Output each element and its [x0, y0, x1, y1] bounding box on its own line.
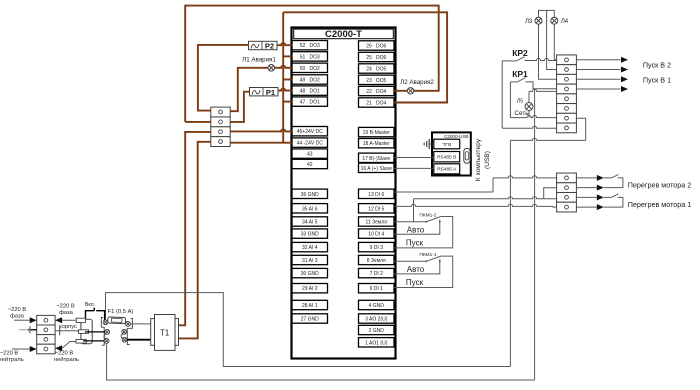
lamp L4 [551, 17, 558, 24]
wire TB1 row3 to pin 45 (+24V) [230, 129, 292, 131]
label C2000-T title band [294, 29, 394, 40]
svg-text:10 DI 4: 10 DI 4 [368, 232, 384, 238]
svg-text:фаза: фаза [10, 314, 25, 320]
pin 3 AO 2(U) [359, 314, 395, 323]
svg-text:52 DO3: 52 DO3 [300, 43, 320, 49]
lamp L3 [535, 17, 542, 24]
svg-text:Р1: Р1 [266, 88, 275, 97]
connector left outline [101, 318, 104, 346]
pin 35 AI 6 [292, 204, 328, 213]
svg-text:49 DO2: 49 DO2 [300, 78, 320, 84]
pin 21 DO4 [359, 98, 395, 107]
label ~220V faza left [8, 307, 27, 320]
svg-text:Перегрев мотора 2: Перегрев мотора 2 [628, 180, 692, 189]
wire lamp top bus [539, 10, 555, 17]
transformer T1 [151, 315, 179, 351]
selector switch PKM1-2 [394, 212, 453, 248]
lamp L5 [525, 103, 533, 111]
wire top rail to pin 21 [283, 12, 447, 102]
wire DO-return rail [282, 12, 284, 142]
wire TB4 row4 to switch bottom (diagonal) [55, 342, 81, 352]
label ~220V neutral left [0, 351, 24, 364]
terminal F1 right top [126, 322, 131, 327]
thermal contact motor 2 [576, 174, 691, 190]
pin 24 DO5 [359, 64, 395, 73]
svg-text:21 DO4: 21 DO4 [366, 101, 386, 107]
svg-text:50 DO2: 50 DO2 [300, 66, 320, 72]
controller U1 C2000-T body [292, 28, 396, 359]
svg-text:Пуск: Пуск [406, 238, 424, 247]
wire bot-right terminal to T1 (thick) [127, 339, 151, 341]
label L5 [517, 99, 523, 105]
svg-text:25 DO6: 25 DO6 [366, 55, 386, 61]
wire neutral riser [534, 89, 536, 380]
svg-text:7 DI 2: 7 DI 2 [370, 271, 384, 277]
svg-text:2 GND: 2 GND [369, 328, 385, 334]
pin 50 DO2 [292, 63, 328, 72]
wire neutral in [12, 346, 37, 352]
label KP2 [512, 48, 528, 58]
relay coil P1 [250, 88, 279, 97]
label KP1 [512, 69, 528, 79]
svg-text:47 DO1: 47 DO1 [300, 100, 320, 106]
svg-text:T1: T1 [160, 328, 169, 337]
label ~220V neutral right [54, 351, 79, 364]
svg-text:6 DI 1: 6 DI 1 [370, 286, 384, 292]
wire pin17 to RS485 B [394, 157, 434, 159]
wire lamp L3 down to TB2 row3 [539, 24, 557, 79]
pin 42 [292, 159, 328, 168]
svg-text:Авто: Авто [407, 265, 425, 274]
svg-text:24 DO5: 24 DO5 [366, 67, 386, 73]
lamp L1 [268, 65, 275, 72]
label korpus [59, 324, 77, 330]
terminal block TB4 (power input, 4 cells) [37, 315, 55, 353]
pin 22 DO4 [359, 86, 395, 95]
pin 26 DO6 [359, 41, 395, 50]
svg-text:28 AI 1: 28 AI 1 [302, 303, 318, 309]
wire TB1 row4 to pin 44 (-24V) [230, 142, 292, 144]
svg-text:Р2: Р2 [265, 42, 274, 51]
wire P1 left to TB1 row2 right [230, 92, 249, 122]
wire pin16 to RS485 A [394, 167, 434, 169]
pin 44 -24V DC [292, 138, 328, 147]
label L1 Avariya1 [242, 56, 276, 63]
contact KP2 [502, 57, 524, 61]
chassis symbol left [19, 326, 37, 334]
svg-text:Перегрев мотора 1: Перегрев мотора 1 [628, 200, 692, 209]
fuse F1 cartridge [108, 317, 126, 324]
pin 7 DI 2 [359, 268, 395, 277]
svg-text:Л2 Авария2: Л2 Авария2 [400, 79, 434, 86]
pin 23 DO5 [359, 75, 395, 84]
svg-text:~220 В: ~220 В [0, 351, 18, 357]
wire P2 left to TB1 row1 [198, 45, 249, 111]
wire P1 to pin 48 (hop) [278, 89, 292, 91]
pin 31 AI 3 [292, 255, 328, 264]
wire mid riser from bus to TB2 row2 [547, 10, 557, 69]
svg-text:48 DO1: 48 DO1 [300, 89, 320, 95]
svg-text:Пуск: Пуск [406, 278, 424, 287]
svg-text:30 GND: 30 GND [301, 271, 319, 277]
pin 27 GND [292, 314, 328, 323]
svg-text:36 GND: 36 GND [301, 192, 319, 198]
wire switch bottom to bot-left terminal [83, 340, 104, 342]
wire pin13 to TB3 row1 [394, 176, 556, 192]
svg-text:ПКМ1-2: ПКМ1-2 [419, 212, 437, 218]
pin 18 A-Master [359, 139, 395, 148]
pin 17 B(-)Slave [359, 153, 395, 162]
converter C2000-USB body [432, 132, 471, 175]
svg-text:(USB): (USB) [484, 151, 491, 169]
svg-text:Л1 Авария1: Л1 Авария1 [242, 56, 276, 63]
terminal mid right [122, 329, 127, 334]
pin 47 DO1 [292, 97, 328, 106]
label Pusk V 2 [643, 61, 671, 70]
svg-text:45+24V DC: 45+24V DC [297, 129, 323, 135]
svg-text:19 B-Master: 19 B-Master [363, 130, 391, 136]
pin 43 [292, 149, 328, 158]
lead curve right [121, 334, 124, 339]
svg-text:С2000-USB: С2000-USB [444, 134, 469, 139]
thermal contact motor 1 [576, 194, 691, 210]
connector right outline [127, 318, 132, 344]
wire switch mid to mid-left terminal [85, 331, 105, 333]
pin 25 DO6 [359, 52, 395, 61]
svg-text:"0"В: "0"В [442, 142, 451, 148]
svg-text:51 DO3: 51 DO3 [300, 54, 320, 60]
pin 28 AI 1 [292, 300, 328, 309]
svg-text:нейтраль: нейтраль [0, 356, 24, 363]
svg-text:3 AO 2(U): 3 AO 2(U) [365, 317, 388, 323]
wire pin12 to TB3 row4 [394, 204, 556, 207]
pin 36 GND [292, 189, 328, 198]
svg-text:18 A-Master: 18 A-Master [363, 141, 390, 147]
wire TB1 row3 down to T1 [179, 132, 211, 325]
svg-text:Пуск В 2: Пуск В 2 [643, 61, 671, 70]
svg-text:34 AI 5: 34 AI 5 [302, 220, 318, 226]
svg-text:29 AI 2: 29 AI 2 [302, 286, 318, 292]
arrow output TB2 row4 [576, 86, 628, 92]
lead curve left [104, 334, 107, 339]
svg-text:17 B(-)Slave: 17 B(-)Slave [362, 156, 390, 162]
pin 9 DI 3 [359, 242, 395, 251]
svg-text:11 Земля: 11 Земля [366, 220, 388, 226]
svg-text:8 Земля: 8 Земля [367, 258, 386, 264]
pin 11 &#1047;&#1077;&#1084;&#1083;&#1103; [359, 217, 395, 226]
wire lamp L1 left to TB1 row1 right [230, 68, 268, 111]
svg-text:12 DI 5: 12 DI 5 [368, 206, 384, 212]
label ~220V faza right [56, 304, 75, 317]
svg-text:КР2: КР2 [512, 48, 528, 58]
pin 33 GND [292, 229, 328, 238]
label C2000-USB [444, 134, 469, 139]
fuse F1 label [108, 309, 134, 315]
wire PKM1-2 common branch to TB3 rows2-3 [414, 188, 557, 222]
relay coil P2 [249, 41, 278, 50]
wire rail stub pin 49 [283, 79, 292, 81]
pin 52 DO3 [292, 41, 328, 50]
switch S1 lever [86, 308, 105, 321]
svg-text:фаза: фаза [59, 310, 74, 316]
svg-text:RS485 B: RS485 B [437, 155, 456, 161]
wire outer rail (neutral net) [107, 343, 535, 380]
pin 12 DI 5 [359, 204, 395, 213]
wire KP1 to TB2 row4 [526, 82, 557, 89]
wire lamp L2 to pin 22 [394, 90, 407, 92]
wire outer rail into TB1 row2 [185, 121, 211, 123]
svg-text:26 DO6: 26 DO6 [366, 44, 386, 50]
svg-text:1 AO1 (U): 1 AO1 (U) [365, 340, 388, 346]
svg-text:Л4: Л4 [561, 19, 569, 25]
pin 32 AI 4 [292, 242, 328, 251]
arrow output TB2 row3 [576, 76, 628, 82]
pin 13 DI 6 [359, 189, 395, 198]
svg-text:~220 В: ~220 В [55, 351, 74, 357]
pin 16 A (+) Slave [359, 163, 395, 172]
wire rail stub pin 47 [283, 101, 292, 103]
svg-text:нейтраль: нейтраль [54, 356, 79, 363]
svg-text:корпус: корпус [59, 324, 77, 330]
terminal block TB2 (8 cells) [557, 55, 577, 133]
svg-text:35 AI 6: 35 AI 6 [302, 206, 318, 212]
wire lamp L5 top to TB2 row4b [529, 89, 557, 102]
svg-text:~220 В: ~220 В [8, 307, 27, 313]
wire lamp L5 bottom riser [528, 111, 530, 118]
label Pusk V 1 [643, 76, 671, 85]
svg-text:Л3: Л3 [525, 19, 533, 25]
svg-text:RS485 A: RS485 A [437, 167, 457, 173]
svg-text:42: 42 [307, 162, 313, 168]
terminal bot right [122, 337, 127, 342]
pin 51 DO3 [292, 52, 328, 61]
wire outer top rail / lamp L2 loop [185, 6, 439, 122]
svg-text:13 DI 6: 13 DI 6 [368, 192, 384, 198]
wire inner rail (switch net) [106, 293, 511, 367]
terminal mid left [105, 330, 110, 335]
pin 48 DO1 [292, 86, 328, 95]
svg-text:Вкл.: Вкл. [85, 302, 95, 308]
switch S1 body [76, 318, 92, 344]
wire TB4 row2 to switch (korpus) [55, 327, 81, 335]
wire KP2 to TB2 row1 (hops) [525, 58, 557, 60]
label K komp'yuteru (USB) [475, 138, 491, 181]
arrow output TB2 row1 [576, 57, 628, 63]
svg-text:27 GND: 27 GND [301, 317, 319, 323]
svg-text:22 DO4: 22 DO4 [366, 89, 386, 95]
svg-text:Л5: Л5 [517, 99, 523, 105]
pin 8 &#1047;&#1077;&#1084;&#1083;&#1103; [359, 255, 395, 264]
svg-text:9 DI 3: 9 DI 3 [370, 245, 384, 251]
pin 2 GND [359, 325, 395, 334]
contact KP1 [510, 78, 525, 82]
wire lamp L1 right to pin 50 (hop) [274, 66, 291, 68]
wire KP2 left rail down to TB2 row8 [502, 61, 556, 128]
svg-text:33 GND: 33 GND [301, 232, 319, 238]
svg-text:~220 В: ~220 В [56, 304, 75, 310]
ground symbol at 0V [424, 139, 434, 149]
pin 0V box [434, 139, 460, 149]
wire phase in [14, 317, 37, 323]
terminal bot left [104, 339, 109, 344]
pin 6 DI 1 [359, 284, 395, 293]
svg-text:4 GND: 4 GND [369, 303, 385, 309]
selector switch PKM1-1 [394, 252, 453, 288]
terminal block TB3 (4 cells) [557, 173, 577, 212]
svg-text:Авто: Авто [407, 225, 425, 234]
terminal F1 left top [103, 320, 108, 325]
svg-text:23 DO5: 23 DO5 [366, 78, 386, 84]
pin 49 DO2 [292, 75, 328, 84]
pin 10 DI 4 [359, 229, 395, 238]
svg-text:32 AI 4: 32 AI 4 [302, 245, 318, 251]
wire TB4 row1 to switch [55, 317, 81, 323]
wire TB2 row7 to inner rail (U) [510, 118, 585, 366]
label Set' [514, 110, 529, 117]
pin 34 AI 5 [292, 217, 328, 226]
pin 29 AI 2 [292, 284, 328, 293]
svg-text:К компьютеру: К компьютеру [475, 138, 482, 181]
label Vkl [85, 302, 95, 308]
pin 4 GND [359, 300, 395, 309]
pin RS485 B box [434, 152, 460, 162]
svg-text:Пуск В 1: Пуск В 1 [643, 76, 671, 85]
svg-text:16 A (+) Slave: 16 A (+) Slave [361, 166, 392, 172]
USB connector [464, 148, 470, 163]
wire fuse right to T1 [130, 323, 151, 325]
wire TB1 row4 down to T1 [179, 142, 211, 339]
pin 45+24V DC [292, 127, 328, 136]
svg-text:КР1: КР1 [512, 69, 528, 79]
svg-text:44 -24V DC: 44 -24V DC [297, 141, 324, 147]
pin RS485 A box [434, 164, 460, 174]
pin 30 GND [292, 268, 328, 277]
wire lamp L4 down to TB2 row1 [554, 24, 556, 60]
arrow output TB2 row2 [576, 67, 628, 73]
svg-text:ПКМ1-1: ПКМ1-1 [419, 252, 437, 258]
wire rail stub pin 51 [283, 55, 292, 57]
svg-text:F1 (0,5 А): F1 (0,5 А) [108, 309, 134, 315]
lamp L2 [407, 88, 413, 94]
terminal block TB1 (4 cells) [211, 107, 230, 146]
svg-text:C2000-T: C2000-T [325, 29, 362, 40]
svg-text:31 AI 3: 31 AI 3 [302, 258, 318, 264]
wire P2 to pin 52 (hop over DO-return rail) [277, 43, 292, 45]
svg-text:43: 43 [307, 152, 313, 158]
pin 19 B-Master [359, 127, 395, 136]
label L2 Avariya2 [400, 79, 434, 86]
wire KP1 left to lamp L5 bottom to TB2 row7 [510, 82, 556, 118]
label L4 [561, 19, 569, 25]
label L3 [525, 19, 533, 25]
pin 1 AO1 (U) [359, 338, 395, 347]
